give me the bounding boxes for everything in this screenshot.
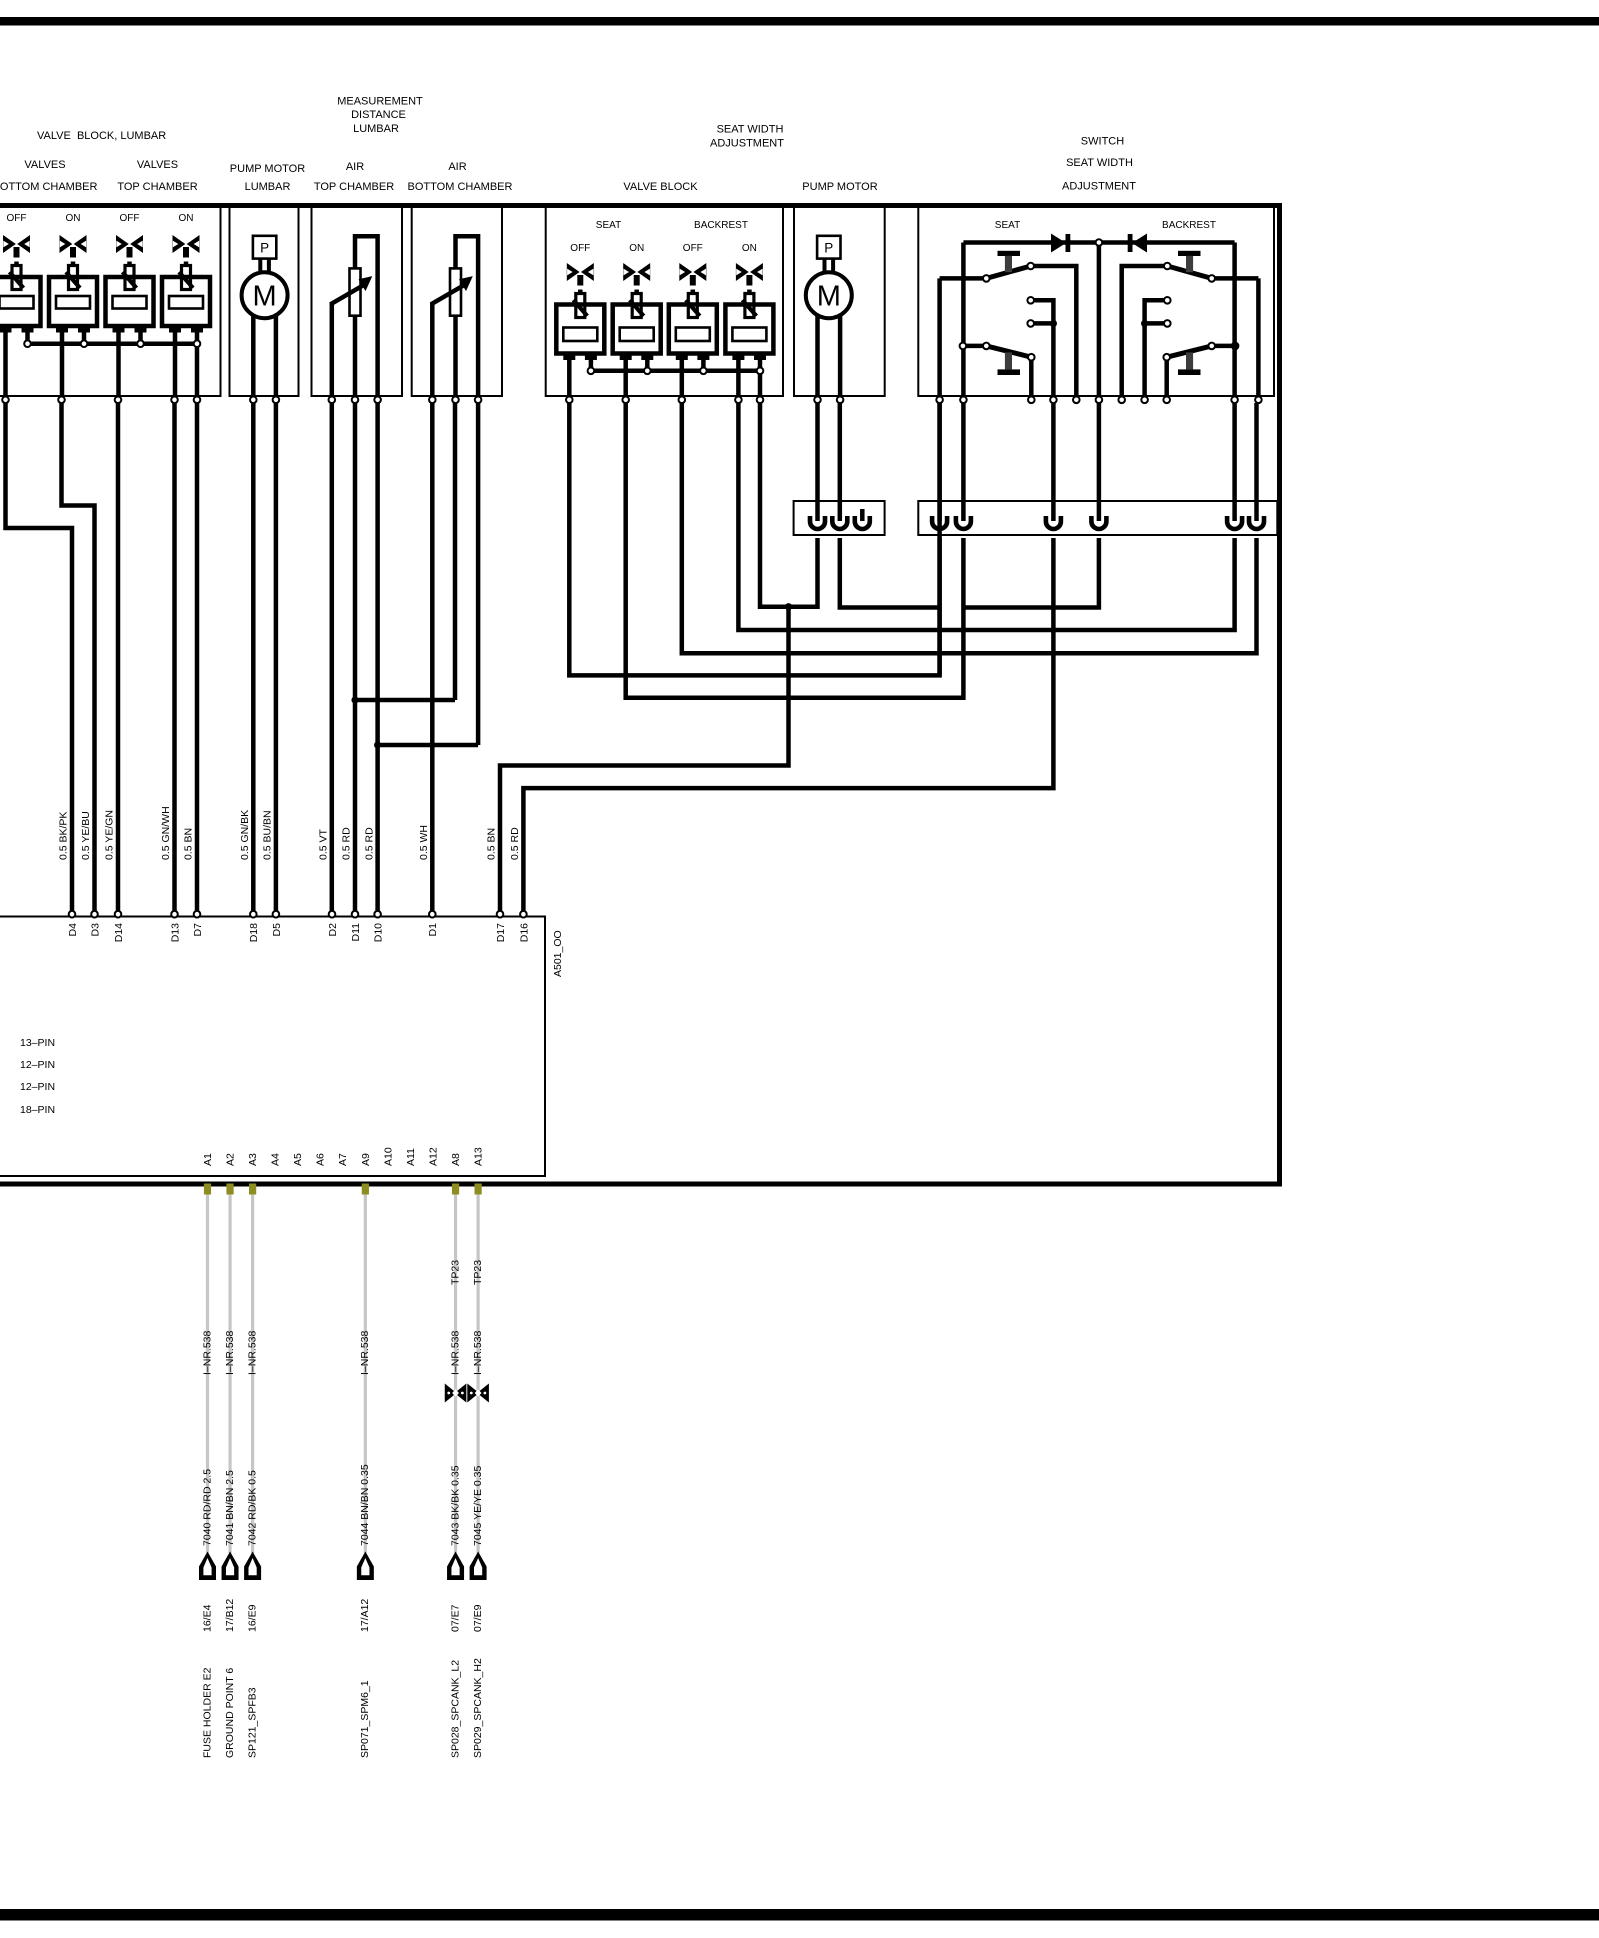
- grey wire 7045 YE/YE 0.35: [477, 1195, 480, 1554]
- sensor leg below resistor (air bottom chamber): [453, 316, 458, 396]
- sensor resistor (air bottom chamber): [450, 268, 461, 315]
- pressure switch P (seat width): [817, 236, 840, 259]
- svg-text:P: P: [824, 240, 833, 255]
- coil box V6 seat-width: [613, 305, 661, 361]
- svg-text:ADJUSTMENT: ADJUSTMENT: [710, 138, 784, 150]
- off-page connector 16/E4: [199, 1552, 216, 1581]
- solenoid valve V3 lumbar (OFF): [116, 213, 143, 290]
- wire from upper blade contact (seat): [1031, 266, 1077, 396]
- svg-text:I–NR.538: I–NR.538: [246, 1330, 258, 1375]
- backrest lower blade junction dot: [1232, 342, 1239, 349]
- svg-text:OFF: OFF: [683, 243, 703, 254]
- svg-text:0.5 YE/GN: 0.5 YE/GN: [104, 810, 116, 860]
- svg-text:12–PIN: 12–PIN: [20, 1081, 55, 1093]
- switch top feed wire: [963, 240, 1234, 245]
- svg-text:0.5 RD: 0.5 RD: [363, 827, 375, 860]
- pump motor M (lumbar): [242, 272, 288, 318]
- solenoid valve V7 seat-width (OFF): [679, 243, 706, 318]
- pin D18: [250, 911, 257, 918]
- wire air top wiper to pin D2: [330, 403, 335, 911]
- sensor wiper wire down (air bottom chamber): [430, 302, 435, 396]
- coil box V5 seat-width: [556, 305, 604, 361]
- off-page connector 17/B12: [222, 1552, 239, 1581]
- sensor wiper arrow (air top chamber): [331, 284, 366, 305]
- svg-text:GROUND POINT 6: GROUND POINT 6: [224, 1668, 236, 1758]
- svg-text:A9: A9: [360, 1153, 372, 1166]
- connector row switch: [918, 501, 1277, 535]
- svg-text:SEAT: SEAT: [995, 220, 1020, 231]
- svg-text:7045 YE/YE 0.35: 7045 YE/YE 0.35: [472, 1465, 484, 1546]
- connector sockets switch: [937, 501, 942, 521]
- splice pad pin at 07/E7: [452, 1184, 459, 1195]
- coil resistor V2 lumbar: [56, 296, 90, 309]
- svg-text:17/A12: 17/A12: [359, 1599, 371, 1632]
- junction air top/bottom supply: [355, 698, 455, 703]
- wire pump motor - above connector: [838, 403, 843, 501]
- svg-text:OFF: OFF: [120, 213, 140, 224]
- middle prong contacts (seat): [1031, 300, 1054, 396]
- bottom border bar: [0, 1909, 1599, 1921]
- svg-text:SP121_SPFB3: SP121_SPFB3: [246, 1687, 258, 1758]
- connector sockets pump motor: [815, 501, 820, 521]
- wire air bottom wiper to pin D1: [430, 403, 435, 911]
- svg-text:A1: A1: [202, 1153, 214, 1166]
- pin D11: [352, 911, 359, 918]
- air top chamber box: [312, 208, 403, 397]
- diode D1 seat (anode left): [1051, 234, 1066, 253]
- svg-text:A10: A10: [382, 1147, 394, 1166]
- svg-text:7043 BK/BK 0.35: 7043 BK/BK 0.35: [449, 1465, 461, 1546]
- pin D10: [374, 911, 381, 918]
- svg-text:SEAT WIDTH: SEAT WIDTH: [717, 124, 784, 136]
- coil stems V3 lumbar: [116, 331, 121, 396]
- svg-text:07/E9: 07/E9: [472, 1604, 484, 1632]
- grey wire 7044 BN/BN 0.35: [364, 1195, 367, 1554]
- svg-text:I–NR.538: I–NR.538: [449, 1330, 461, 1375]
- svg-text:0.5 BU/BN: 0.5 BU/BN: [262, 810, 274, 860]
- wire switch backrest pivot below box: [1254, 403, 1259, 501]
- coil stems V5 seat-width: [567, 359, 572, 397]
- upper contact blade (seat): [940, 276, 987, 281]
- wire lumbar pump - to pin D5: [274, 403, 279, 911]
- svg-text:0.5 BN: 0.5 BN: [486, 828, 498, 860]
- wire lumbar valve2 to pin D3: [62, 403, 95, 911]
- grey wire 7042 RD/BK 0.5: [251, 1195, 254, 1554]
- svg-text:SP071_SPM6_1: SP071_SPM6_1: [359, 1680, 371, 1758]
- upper blade actuator T (seat): [998, 251, 1021, 256]
- svg-text:BACKREST: BACKREST: [694, 220, 748, 231]
- node between diodes: [1097, 243, 1102, 397]
- svg-text:16/E4: 16/E4: [201, 1604, 213, 1632]
- svg-text:FUSE HOLDER E2: FUSE HOLDER E2: [201, 1667, 213, 1758]
- coil box V4 lumbar: [162, 277, 210, 333]
- svg-text:0.5 VT: 0.5 VT: [318, 828, 330, 860]
- svg-text:A8: A8: [450, 1153, 462, 1166]
- pin D13: [171, 911, 178, 918]
- sensor leg below resistor (air top chamber): [353, 316, 358, 396]
- pin D16: [520, 911, 527, 918]
- pump motor lumbar box: [230, 208, 299, 397]
- svg-text:ON: ON: [179, 213, 194, 224]
- valve block seat width box: [546, 208, 783, 397]
- off-page connector 16/E9: [244, 1552, 261, 1581]
- coil resistor V3 lumbar: [113, 296, 147, 309]
- wire seat valve3 to switch backrest pivot: [682, 403, 1257, 653]
- svg-text:D4: D4: [67, 923, 79, 937]
- wire pump motor - to switch seat pivot net: [840, 538, 940, 608]
- seat width valve block pin circles: [566, 397, 573, 404]
- svg-text:7044 BN/BN 0.35: 7044 BN/BN 0.35: [359, 1464, 371, 1546]
- svg-text:D11: D11: [350, 923, 362, 942]
- off-page connector 17/A12: [357, 1552, 374, 1581]
- svg-text:A7: A7: [337, 1153, 349, 1166]
- splice pad pin at 16/E9: [249, 1184, 256, 1195]
- svg-text:ADJUSTMENT: ADJUSTMENT: [1062, 181, 1136, 193]
- svg-text:A3: A3: [247, 1153, 259, 1166]
- svg-text:A4: A4: [270, 1153, 282, 1166]
- svg-text:7041 BN/BN 2.5: 7041 BN/BN 2.5: [224, 1470, 236, 1546]
- air bottom chamber box: [412, 208, 502, 397]
- splice pad pin at 17/A12: [362, 1184, 369, 1195]
- coil stems V4 lumbar: [173, 331, 178, 396]
- pressure switch P (lumbar): [253, 236, 276, 259]
- svg-text:SEAT WIDTH: SEAT WIDTH: [1066, 157, 1133, 169]
- wire lumbar valve4 to pin D13: [172, 403, 177, 911]
- sensor staple wire (air bottom chamber): [456, 236, 479, 396]
- lower blade actuator T (backrest): [1186, 352, 1193, 369]
- seat width valve bus wire: [591, 369, 760, 374]
- svg-text:PUMP MOTOR: PUMP MOTOR: [802, 181, 877, 193]
- svg-text:0.5 WH: 0.5 WH: [418, 825, 430, 860]
- svg-text:0.5 RD: 0.5 RD: [509, 827, 521, 860]
- wire switch seat prongs to D16: [523, 538, 1053, 911]
- seat width bus junction circles: [588, 368, 595, 375]
- wire switch seat feed to diode node: [963, 538, 1099, 608]
- svg-text:D1: D1: [427, 923, 439, 937]
- splice pad pin at 17/B12: [226, 1184, 233, 1195]
- pin D5: [273, 911, 280, 918]
- svg-text:VALVES: VALVES: [24, 159, 65, 171]
- svg-text:0.5 YE/BU: 0.5 YE/BU: [80, 811, 92, 860]
- wire air top right leg to pin D10: [375, 403, 380, 911]
- svg-text:DISTANCE: DISTANCE: [351, 109, 406, 121]
- svg-text:A2: A2: [224, 1153, 236, 1166]
- svg-text:BOTTOM CHAMBER: BOTTOM CHAMBER: [0, 181, 98, 193]
- position sensor air bottom chamber: [429, 236, 481, 403]
- svg-text:18–PIN: 18–PIN: [20, 1104, 55, 1116]
- sensor staple wire (air top chamber): [355, 236, 378, 396]
- switch seat width box: [918, 208, 1274, 397]
- svg-text:AIR: AIR: [448, 161, 466, 173]
- wire switch seat prongs below box: [1051, 403, 1056, 501]
- pin D14: [115, 911, 122, 918]
- sensor resistor (air top chamber): [350, 268, 361, 315]
- wire switch seat pivot below box: [937, 403, 942, 501]
- pin D3: [91, 911, 98, 918]
- svg-text:A5: A5: [292, 1153, 304, 1166]
- svg-text:SEAT: SEAT: [596, 220, 621, 231]
- lower blade actuator T (seat): [1005, 352, 1012, 369]
- middle prong contacts (backrest): [1145, 300, 1168, 396]
- link P to motor (seat width): [823, 259, 827, 280]
- splice bowtie on wire 07/E7: [445, 1384, 457, 1403]
- svg-text:LUMBAR: LUMBAR: [353, 123, 399, 135]
- diode D2 backrest (anode right): [1132, 234, 1147, 253]
- svg-text:MEASUREMENT: MEASUREMENT: [337, 96, 423, 108]
- svg-text:M: M: [817, 281, 841, 313]
- svg-text:ON: ON: [66, 213, 81, 224]
- svg-text:D14: D14: [113, 923, 125, 942]
- svg-text:7042 RD/BK 0.5: 7042 RD/BK 0.5: [246, 1470, 258, 1546]
- lower blade contact circles (seat): [960, 343, 967, 350]
- svg-text:TOP CHAMBER: TOP CHAMBER: [314, 181, 394, 193]
- svg-text:A6: A6: [315, 1153, 327, 1166]
- junction seat bus/pump: [785, 603, 792, 610]
- pin D2: [329, 911, 336, 918]
- sensor wiper arrow (air bottom chamber): [431, 284, 466, 305]
- coil box V7 seat-width: [669, 305, 717, 361]
- off-page connector 07/E9: [470, 1552, 487, 1581]
- svg-text:ON: ON: [742, 243, 757, 254]
- svg-text:SWITCH: SWITCH: [1081, 136, 1124, 148]
- svg-text:SP028_SPCANK_L2: SP028_SPCANK_L2: [449, 1660, 461, 1758]
- svg-text:D17: D17: [495, 923, 507, 942]
- wire switch diode node below box: [1097, 403, 1102, 501]
- svg-text:13–PIN: 13–PIN: [20, 1037, 55, 1049]
- svg-text:A12: A12: [427, 1147, 439, 1166]
- pump motor box: [794, 208, 885, 397]
- pump motor pin circles (lumbar): [250, 397, 257, 404]
- svg-text:M: M: [253, 281, 277, 313]
- coil stems V8 seat-width: [736, 359, 741, 397]
- solenoid valve V6 seat-width (ON): [623, 243, 650, 318]
- upper contact blade (backrest): [1212, 276, 1259, 281]
- connector row pump motor: [794, 501, 885, 535]
- svg-text:OFF: OFF: [570, 243, 590, 254]
- lower contact blade (seat): [963, 344, 986, 349]
- coil box V2 lumbar: [49, 277, 97, 333]
- solenoid valve V8 seat-width (ON): [736, 243, 763, 318]
- wire lumbar bus to pin D7: [195, 403, 200, 911]
- wire seat valve4 to switch backrest feed: [738, 403, 1234, 630]
- pin D7: [194, 911, 201, 918]
- unused socket pump motor connector: [860, 509, 865, 521]
- grey wire 7043 BK/BK 0.35: [454, 1195, 457, 1554]
- coil resistor V6 seat-width: [620, 328, 654, 342]
- svg-text:VALVES: VALVES: [137, 159, 178, 171]
- svg-text:0.5 GN/WH: 0.5 GN/WH: [160, 806, 172, 860]
- upper blade contact circles (seat): [983, 275, 990, 282]
- wire lumbar valve1 to pin D4: [6, 403, 73, 911]
- coil stems V2 lumbar: [60, 331, 65, 396]
- switch vertical from feed (seat): [961, 243, 966, 397]
- wire switch backrest feed below box: [1232, 403, 1237, 501]
- pin D4: [69, 911, 76, 918]
- coil stems V6 seat-width: [623, 359, 628, 397]
- svg-text:D5: D5: [271, 923, 283, 937]
- wire pump motor + above connector: [815, 403, 820, 501]
- upper blade actuator T (backrest): [1178, 251, 1201, 256]
- svg-text:P: P: [260, 240, 269, 255]
- grey wire 7041 BN/BN 2.5: [228, 1195, 231, 1554]
- coil resistor V8 seat-width: [732, 328, 766, 342]
- wire seat valve1 to switch seat pivot: [569, 403, 939, 675]
- svg-text:0.5 GN/BK: 0.5 GN/BK: [239, 810, 251, 860]
- svg-text:VALVE BLOCK: VALVE BLOCK: [623, 181, 698, 193]
- svg-text:ON: ON: [629, 243, 644, 254]
- coil stems V7 seat-width: [680, 359, 685, 397]
- svg-text:7040 RD/RD 2.5: 7040 RD/RD 2.5: [201, 1469, 213, 1546]
- svg-text:I–NR.538: I–NR.538: [224, 1330, 236, 1375]
- svg-text:LUMBAR: LUMBAR: [245, 181, 291, 193]
- svg-text:D2: D2: [327, 923, 339, 937]
- svg-text:D3: D3: [89, 923, 101, 937]
- upper blade contact circles (backrest): [1208, 275, 1215, 282]
- svg-text:TP23: TP23: [449, 1260, 461, 1285]
- coil resistor V7 seat-width: [676, 328, 710, 342]
- svg-text:17/B12: 17/B12: [224, 1599, 236, 1632]
- svg-text:16/E9: 16/E9: [246, 1604, 258, 1632]
- svg-text:TOP CHAMBER: TOP CHAMBER: [117, 181, 197, 193]
- motor wires (lumbar): [251, 296, 256, 396]
- lumbar valve bus wire: [28, 341, 198, 346]
- grey wire 7040 RD/RD 2.5: [206, 1195, 209, 1554]
- svg-text:TP23: TP23: [472, 1260, 484, 1285]
- svg-text:AIR: AIR: [346, 161, 364, 173]
- svg-text:0.5 RD: 0.5 RD: [341, 827, 353, 860]
- svg-text:OFF: OFF: [7, 213, 27, 224]
- switch vertical from feed (backrest): [1232, 243, 1237, 397]
- off-page connector 07/E7: [447, 1552, 464, 1581]
- svg-text:D10: D10: [373, 923, 385, 942]
- coil resistor V4 lumbar: [169, 296, 203, 309]
- sensor pin circles (air top chamber): [329, 397, 336, 404]
- splice pad pin at 07/E9: [475, 1184, 482, 1195]
- coil box V1 lumbar: [0, 277, 41, 333]
- pin D17: [497, 911, 504, 918]
- svg-text:I–NR.538: I–NR.538: [201, 1330, 213, 1375]
- svg-text:07/E7: 07/E7: [449, 1604, 461, 1632]
- link P to motor (lumbar): [258, 259, 262, 280]
- coil stems V1 lumbar: [3, 331, 8, 396]
- svg-text:A11: A11: [405, 1148, 417, 1166]
- svg-text:0.5 BN: 0.5 BN: [183, 828, 195, 860]
- solenoid valve V4 lumbar (ON): [173, 213, 200, 290]
- coil resistor V1 lumbar: [0, 296, 34, 309]
- pump motor pin circles (seat width): [814, 397, 821, 404]
- wire junction down to D17: [500, 607, 789, 911]
- wire switch seat feed below box: [961, 403, 966, 501]
- svg-text:PUMP MOTOR: PUMP MOTOR: [230, 163, 305, 175]
- svg-text:D16: D16: [518, 923, 530, 942]
- wire seat bus U-link to pump motor +: [760, 403, 818, 607]
- svg-text:VALVE BLOCK, LUMBAR: VALVE BLOCK, LUMBAR: [37, 130, 166, 142]
- pin D1: [429, 911, 436, 918]
- switch box bottom pin circles: [936, 397, 943, 404]
- svg-text:12–PIN: 12–PIN: [20, 1059, 55, 1071]
- svg-text:I–NR.538: I–NR.538: [359, 1330, 371, 1375]
- junction air top/bottom return: [378, 743, 479, 748]
- lumbar bus junction circles: [24, 340, 31, 347]
- wire seat valve2 to switch seat feed: [626, 403, 964, 698]
- outer harness box: [0, 206, 1280, 1185]
- position sensor air top chamber: [329, 236, 381, 403]
- svg-text:BACKREST: BACKREST: [1162, 220, 1216, 231]
- coil box V3 lumbar: [106, 277, 154, 333]
- svg-text:BOTTOM CHAMBER: BOTTOM CHAMBER: [408, 181, 513, 193]
- svg-text:SP029_SPCANK_H2: SP029_SPCANK_H2: [472, 1658, 484, 1758]
- top border bar: [0, 17, 1599, 26]
- wire lumbar valve3 to pin D14: [116, 403, 121, 911]
- splice bowtie on wire 07/E9: [467, 1384, 479, 1403]
- lower blade contact circles (backrest): [1232, 343, 1239, 350]
- svg-text:A501_OO: A501_OO: [552, 930, 564, 977]
- svg-text:D7: D7: [192, 923, 204, 937]
- solenoid valve V1 lumbar (OFF): [3, 213, 30, 290]
- pump motor M (seat width): [806, 272, 852, 318]
- svg-text:D18: D18: [248, 923, 260, 942]
- wire from upper blade contact (backrest): [1122, 266, 1168, 396]
- lower contact blade (backrest): [1212, 344, 1235, 349]
- sensor pin circles (air bottom chamber): [429, 397, 436, 404]
- wire air top resistor leg to pin D11: [353, 403, 358, 911]
- wire lumbar pump + to pin D18: [251, 403, 256, 911]
- coil resistor V5 seat-width: [563, 328, 597, 342]
- svg-text:I–NR.538: I–NR.538: [472, 1330, 484, 1375]
- svg-text:A13: A13: [473, 1147, 485, 1166]
- splice pad pin at 16/E4: [204, 1184, 211, 1195]
- sensor wiper wire down (air top chamber): [330, 302, 335, 396]
- svg-text:D13: D13: [169, 923, 181, 942]
- motor wires (seat width): [815, 296, 820, 396]
- lumbar valve block pin circles: [2, 397, 9, 404]
- coil box V8 seat-width: [725, 305, 773, 361]
- svg-text:0.5 BK/PK: 0.5 BK/PK: [58, 812, 70, 860]
- solenoid valve V2 lumbar (ON): [60, 213, 87, 290]
- solenoid valve V5 seat-width (OFF): [567, 243, 594, 318]
- control unit A501_OO box: [0, 917, 545, 1177]
- valve block lumbar box: [0, 208, 221, 397]
